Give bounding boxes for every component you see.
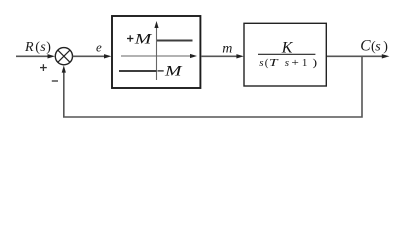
- svg-text:e: e: [96, 40, 102, 55]
- svg-text:T: T: [269, 57, 279, 69]
- svg-text:): ): [313, 57, 318, 69]
- svg-text:1: 1: [302, 57, 308, 69]
- svg-text:m: m: [222, 42, 232, 57]
- svg-text:R: R: [24, 40, 34, 55]
- svg-text:s: s: [375, 39, 381, 54]
- svg-text:): ): [46, 40, 51, 55]
- svg-text:): ): [383, 39, 388, 54]
- svg-text:C: C: [360, 37, 371, 54]
- svg-text:s: s: [259, 57, 263, 69]
- svg-text:M: M: [133, 32, 153, 48]
- svg-text:M: M: [164, 64, 184, 80]
- svg-text:+: +: [291, 57, 299, 69]
- svg-text:s: s: [285, 57, 289, 69]
